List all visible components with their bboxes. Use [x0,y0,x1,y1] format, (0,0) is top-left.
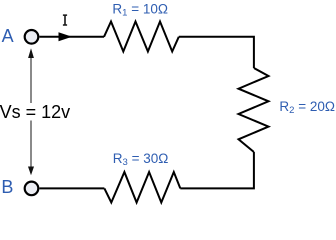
resistor R2 [239,68,269,152]
label I [63,14,67,25]
svg-text:A: A [2,26,14,46]
svg-text:R1 = 10Ω: R1 = 10Ω [112,1,168,18]
svg-text:R3 = 30Ω: R3 = 30Ω [113,151,169,168]
svg-text:R2 = 20Ω: R2 = 20Ω [279,99,335,116]
terminal B [25,182,39,196]
terminal A [25,30,39,44]
resistor R1 [104,22,179,52]
resistor R3 [104,172,180,203]
svg-text:B: B [1,177,13,197]
svg-text:Vs = 12v: Vs = 12v [0,102,70,122]
current arrow [59,32,73,41]
wire top-right [179,37,254,68]
Vs measure line lower [30,121,32,169]
Vs measure line upper [30,56,32,103]
Vs measure arrowhead up [28,48,34,58]
wire bottom [40,187,105,189]
wire top [40,36,105,38]
Vs measure arrowhead down [28,167,34,176]
wire bottom-right [180,152,254,188]
